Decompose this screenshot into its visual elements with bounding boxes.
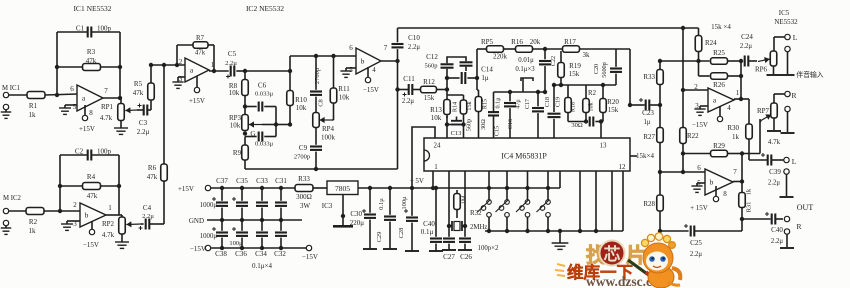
capacitor C8 2700p	[310, 56, 325, 113]
wire G to R10	[276, 124, 290, 126]
svg-text:R16: R16	[511, 38, 523, 46]
wire IC2b pin6	[290, 56, 356, 71]
regulator 7805 IC3	[322, 181, 358, 210]
resistor R14 15k	[447, 95, 473, 138]
node R7 fb	[175, 63, 179, 67]
capacitor C39 2.2u	[749, 153, 784, 187]
capacitor C16 47u	[504, 90, 522, 138]
wire mic2 input	[9, 210, 80, 212]
svg-text:C5: C5	[228, 50, 237, 58]
op-amp IC5b	[697, 164, 737, 198]
svg-text:12: 12	[619, 163, 627, 171]
+15V IC1a	[79, 105, 95, 133]
svg-text:47μ: 47μ	[515, 99, 522, 109]
svg-text:R28: R28	[643, 200, 655, 208]
+5V rail	[358, 171, 560, 188]
svg-text:L: L	[792, 157, 797, 166]
svg-text:R31: R31	[746, 202, 753, 213]
svg-text:−15V: −15V	[363, 86, 379, 94]
+15V IC2a	[189, 76, 205, 105]
wire R20 bottom	[601, 121, 603, 123]
capacitor C28 100u	[398, 186, 419, 251]
wire R29 down	[740, 151, 744, 181]
capacitor C15 0.1u	[488, 92, 502, 138]
capacitor near pin13	[590, 117, 604, 139]
input M IC2	[1, 195, 22, 234]
svg-text:2700p: 2700p	[314, 68, 321, 84]
pot RP1 4.7k	[100, 103, 124, 122]
capacitor C14 1u	[447, 66, 493, 85]
svg-text:47k: 47k	[86, 57, 97, 65]
op-amp IC2b	[349, 44, 388, 74]
svg-text:47k: 47k	[87, 192, 98, 200]
svg-text:10k: 10k	[229, 89, 240, 97]
-15V rail	[190, 245, 305, 253]
capacitor C31/C32	[274, 177, 287, 258]
svg-text:0.1μ: 0.1μ	[378, 198, 385, 210]
resistor R15 30ohm	[475, 78, 488, 138]
svg-text:RP1: RP1	[101, 103, 114, 111]
capacitor C17	[524, 90, 544, 138]
wire cap bank rail	[494, 91, 546, 93]
svg-text:IC1 NE5532: IC1 NE5532	[73, 4, 111, 13]
svg-text:C1: C1	[76, 25, 85, 33]
node R5 top	[149, 63, 153, 67]
capacitor C27 100p	[442, 226, 456, 261]
ground RP2	[115, 234, 129, 248]
svg-text:6: 6	[697, 164, 701, 172]
IC1 label	[73, 4, 111, 13]
svg-text:15k: 15k	[608, 106, 619, 114]
svg-text:R20: R20	[607, 98, 619, 106]
capacitor C6 0.033u	[245, 82, 276, 112]
svg-text:47k: 47k	[147, 173, 158, 181]
node A	[445, 76, 449, 92]
svg-text:6: 6	[70, 85, 74, 93]
svg-text:6: 6	[349, 44, 353, 52]
capacitor C1 100p	[76, 25, 112, 38]
RP7 feed wire	[742, 119, 760, 154]
wire pin24 supply	[412, 127, 435, 188]
wire R26 row	[699, 61, 710, 76]
svg-text:C32: C32	[274, 250, 286, 258]
svg-text:R4: R4	[87, 173, 96, 181]
svg-text:C22: C22	[550, 56, 557, 66]
svg-text:R2: R2	[588, 90, 597, 97]
switch S3	[516, 171, 530, 233]
wire mic1 input	[9, 94, 78, 95]
RP1 wiper arrow	[125, 107, 137, 113]
node C9 return	[314, 167, 318, 171]
ground IC2a pin3	[172, 77, 185, 88]
svg-text:C8: C8	[318, 99, 325, 107]
svg-text:1μ: 1μ	[481, 74, 489, 82]
svg-text:R: R	[796, 222, 801, 231]
wire C6 loop	[275, 107, 277, 137]
wire 30ohm cap row	[568, 119, 588, 129]
label 15kx4 left	[636, 152, 654, 160]
svg-text:RP5: RP5	[481, 38, 494, 46]
svg-text:RP4: RP4	[322, 125, 335, 133]
ground IC1b pin3	[61, 221, 80, 230]
IC4 pin14 stub	[630, 155, 637, 157]
svg-text:C2: C2	[75, 148, 84, 156]
wire C25 row	[658, 229, 689, 233]
resistor R9	[233, 137, 248, 170]
svg-text:OUT: OUT	[797, 203, 814, 212]
node mic2 feedback	[58, 209, 62, 213]
svg-text:C20: C20	[593, 64, 600, 74]
svg-text:4.7k: 4.7k	[102, 231, 115, 239]
label 100u	[229, 240, 243, 247]
svg-text:C29: C29	[376, 232, 383, 243]
wire R3 row	[57, 66, 120, 68]
svg-text:1000μ: 1000μ	[200, 202, 218, 209]
svg-text:47k: 47k	[133, 89, 144, 97]
svg-text:M IC2: M IC2	[3, 195, 22, 202]
svg-text:1k: 1k	[746, 188, 753, 195]
wire IC1a out	[103, 98, 121, 103]
svg-text:47k: 47k	[195, 50, 206, 57]
svg-text:15k×4: 15k×4	[636, 152, 654, 160]
svg-text:R22: R22	[687, 132, 699, 140]
node R3 left	[55, 65, 59, 69]
svg-text:2: 2	[179, 58, 183, 66]
svg-text:NE5532: NE5532	[774, 18, 798, 26]
wire IC1b out	[106, 215, 122, 217]
svg-text:100μ: 100μ	[401, 196, 408, 210]
resistor R1 1k	[27, 92, 45, 120]
resistor R25	[711, 49, 728, 64]
svg-text:C24: C24	[741, 33, 753, 41]
resistor R20 15k	[600, 83, 620, 122]
capacitor C40b 2.2u	[765, 212, 783, 245]
svg-text:IC3: IC3	[322, 202, 333, 210]
wire right bank rail	[554, 84, 616, 86]
node IC2b out join	[395, 59, 399, 63]
svg-text:2.2μ: 2.2μ	[225, 60, 237, 67]
switch bottom wire	[485, 230, 623, 232]
svg-text:8: 8	[89, 109, 93, 117]
svg-text:IC5: IC5	[779, 9, 790, 17]
ground IC5a pin3	[694, 106, 708, 115]
svg-text:10k: 10k	[339, 94, 350, 102]
svg-text:R32: R32	[470, 209, 482, 217]
ground IC1a pin5	[59, 105, 77, 114]
svg-text:7: 7	[384, 44, 388, 52]
svg-text:R3: R3	[87, 48, 96, 56]
svg-text:C27: C27	[443, 253, 455, 261]
svg-text:C31: C31	[275, 177, 287, 185]
resistor R2 1k	[26, 208, 44, 236]
switch S4	[537, 171, 551, 233]
svg-text:4: 4	[727, 104, 731, 112]
svg-text:2: 2	[694, 83, 698, 91]
L out jack	[780, 157, 797, 197]
wire top feedback	[398, 27, 699, 29]
svg-text:0.01μ: 0.01μ	[518, 57, 534, 64]
svg-text:20k: 20k	[530, 38, 541, 46]
svg-text:2.2μ: 2.2μ	[142, 213, 154, 220]
svg-text:10k: 10k	[230, 122, 241, 130]
-15V IC1b	[83, 221, 99, 249]
node C22 top	[543, 47, 547, 51]
svg-text:R2: R2	[29, 218, 38, 226]
svg-text:1k: 1k	[732, 133, 740, 141]
resistor R4 47k	[83, 173, 101, 200]
node R3 right	[118, 65, 122, 69]
op-amp IC1b	[73, 201, 112, 228]
svg-text:0.1μ: 0.1μ	[495, 97, 502, 109]
svg-text:2.2μ: 2.2μ	[740, 43, 752, 50]
svg-text:C40: C40	[423, 220, 435, 228]
capacitor C7 0.033u	[245, 132, 276, 148]
IC4 bottom stubs	[578, 171, 623, 233]
resistor R31 1k	[739, 182, 753, 220]
capacitor C20 5600p	[593, 49, 622, 85]
svg-text:R25: R25	[713, 49, 725, 57]
resistor R18 30ohm	[565, 85, 577, 122]
IC2 label	[246, 4, 284, 13]
svg-text:220μ: 220μ	[350, 219, 365, 227]
svg-text:R19: R19	[569, 62, 581, 70]
svg-text:C36: C36	[235, 250, 247, 258]
svg-text:C12: C12	[426, 53, 438, 61]
svg-text:RP2: RP2	[102, 220, 115, 228]
svg-text:2: 2	[73, 201, 77, 209]
switch S1	[478, 171, 492, 233]
svg-text:24: 24	[434, 142, 442, 150]
svg-text:C15: C15	[494, 126, 501, 136]
svg-text:R11: R11	[338, 85, 350, 93]
wire delay return	[245, 90, 398, 170]
svg-text:8: 8	[723, 190, 727, 198]
resistor R6 47k	[147, 65, 168, 224]
svg-text:7: 7	[104, 87, 108, 95]
capacitor C5 2.2u	[225, 50, 245, 79]
svg-text:15k: 15k	[466, 100, 473, 110]
RP3 wiper arrow	[249, 121, 276, 127]
svg-text:IC4 M65831P: IC4 M65831P	[501, 152, 547, 161]
svg-text:100k: 100k	[321, 134, 336, 142]
wire IC5b pin6	[658, 170, 705, 174]
svg-text:C40: C40	[771, 226, 783, 234]
svg-text:2MHz: 2MHz	[470, 224, 487, 231]
label 15kx4 top	[711, 23, 731, 31]
svg-text:R10: R10	[295, 96, 307, 104]
resistor R12 15k	[421, 78, 437, 102]
svg-text:R33: R33	[643, 73, 655, 81]
capacitor C10 2.2u	[392, 28, 421, 90]
svg-text:2.2μ: 2.2μ	[771, 238, 783, 245]
svg-text:C35: C35	[236, 177, 248, 185]
resistor R27 15k	[643, 105, 663, 172]
+15V IC5b	[690, 186, 719, 212]
svg-text:−15V: −15V	[190, 245, 206, 253]
svg-text:+ 15V: + 15V	[690, 204, 708, 212]
svg-text:R9: R9	[233, 149, 242, 157]
label OUT	[797, 203, 814, 212]
pot RP4 100k	[313, 113, 336, 142]
svg-text:2.2μ: 2.2μ	[768, 180, 780, 187]
resistor R33 300ohm	[295, 175, 327, 210]
R out jack	[780, 216, 802, 248]
switch ground	[552, 229, 569, 250]
svg-text:C19: C19	[555, 97, 562, 107]
resistor R2 10k	[583, 85, 597, 122]
label 1000u bottom	[200, 233, 218, 240]
L input jack	[774, 33, 798, 75]
wire IC2a out	[209, 70, 229, 72]
node R4 left	[58, 184, 62, 188]
wire IC5a pin2	[681, 88, 708, 92]
capacitor C37/C38	[212, 177, 228, 258]
capacitor C22 0.01u	[539, 49, 557, 94]
node R7 out	[212, 69, 216, 73]
svg-text:C9: C9	[299, 144, 308, 152]
capacitor C26 100p	[458, 226, 472, 261]
resistor R5 47k	[133, 65, 155, 110]
svg-text:4: 4	[372, 66, 376, 74]
capacitor C25 2.2u	[684, 224, 742, 258]
capacitor C9 2700p	[294, 128, 322, 170]
node C11 row	[395, 87, 399, 91]
resistor R10 10k	[287, 71, 308, 125]
node R4 right	[117, 184, 121, 188]
pot RP6	[755, 51, 777, 74]
node R10 bottom	[288, 122, 292, 126]
wire RP5 col	[477, 49, 487, 78]
svg-text:R26: R26	[713, 81, 725, 89]
resistor R11 10k	[330, 56, 350, 120]
svg-text:R24: R24	[705, 39, 717, 47]
wire R4 row	[60, 185, 119, 187]
svg-text:5600p: 5600p	[601, 62, 608, 77]
svg-text:0.1μ×4: 0.1μ×4	[252, 262, 272, 270]
switch S2	[496, 171, 510, 233]
svg-text:1: 1	[108, 204, 112, 212]
svg-text:伴音输入: 伴音输入	[796, 70, 823, 79]
svg-text:100p×2: 100p×2	[478, 245, 499, 252]
wire IC2b out	[381, 60, 398, 62]
capacitor C40 0.1u	[421, 186, 443, 251]
wire R16-R17	[533, 48, 563, 50]
capacitor C2 100p	[75, 148, 112, 161]
svg-text:C4: C4	[143, 204, 152, 212]
svg-text:15k: 15k	[424, 94, 435, 102]
label 1000u top	[200, 202, 218, 209]
crystal 2MHz	[447, 171, 488, 231]
svg-text:R14: R14	[452, 102, 459, 112]
wire R7 feedback	[177, 45, 214, 71]
svg-text:2.2μ: 2.2μ	[402, 98, 414, 105]
svg-text:b: b	[710, 178, 714, 187]
svg-text:R17: R17	[564, 38, 576, 46]
svg-text:R27: R27	[643, 133, 655, 141]
wire R12 to node	[437, 89, 448, 91]
svg-text:1k: 1k	[29, 111, 37, 119]
svg-text:0.1μ×3: 0.1μ×3	[515, 66, 535, 73]
capacitor C4 2.2u	[139, 204, 165, 230]
wire C5 node	[245, 70, 290, 72]
svg-text:RP7: RP7	[757, 107, 770, 115]
svg-text:1k: 1k	[29, 227, 37, 235]
label banyin input	[796, 70, 823, 79]
node C8 top	[314, 54, 318, 58]
svg-text:2.2μ: 2.2μ	[137, 128, 150, 136]
svg-text:C37: C37	[216, 177, 228, 185]
svg-text:10k: 10k	[431, 114, 442, 122]
svg-text:R12: R12	[423, 78, 435, 86]
node R6 top	[162, 63, 166, 67]
ground RP6	[767, 66, 781, 75]
svg-text:300Ω: 300Ω	[296, 193, 312, 201]
op-amp IC1a	[70, 85, 108, 117]
svg-text:0.033μ: 0.033μ	[255, 91, 274, 98]
capacitor C12 560p	[425, 53, 473, 78]
node C14 right	[475, 76, 479, 80]
svg-text:芯: 芯	[604, 244, 621, 264]
svg-text:7: 7	[733, 168, 737, 176]
input M IC1	[1, 85, 20, 118]
svg-text:C38: C38	[215, 250, 227, 258]
-15V IC5a	[692, 106, 723, 129]
svg-text:10k: 10k	[296, 104, 307, 112]
resistor R17 3k	[563, 38, 591, 59]
svg-text:+15V: +15V	[79, 125, 95, 133]
resistor R30 1k	[727, 99, 752, 160]
svg-text:M IC1: M IC1	[2, 85, 20, 92]
resistor R24 15k	[695, 28, 717, 61]
svg-text:4.7k: 4.7k	[768, 138, 781, 146]
svg-text:560p: 560p	[466, 119, 473, 131]
pot RP2 4.7k	[102, 217, 125, 239]
svg-text:R6: R6	[148, 164, 157, 172]
svg-text:R29: R29	[713, 142, 725, 150]
wire R25 row	[658, 59, 710, 63]
svg-text:2.2μ: 2.2μ	[690, 251, 702, 258]
svg-text:C6: C6	[258, 82, 267, 90]
svg-text:−15V: −15V	[83, 241, 99, 249]
RP7 wiper arrow	[760, 114, 771, 122]
svg-text:GND: GND	[189, 217, 204, 225]
resistor R26	[711, 73, 728, 89]
wire C1 top loop	[57, 32, 120, 98]
resistor R8 10k	[229, 71, 249, 114]
node C5 out	[243, 69, 247, 73]
label 100px2	[478, 245, 499, 252]
svg-text:30Ω: 30Ω	[571, 122, 583, 129]
svg-text:R33: R33	[298, 175, 310, 183]
capacitor C24 2.2u	[740, 33, 757, 67]
svg-text:C3: C3	[139, 119, 148, 127]
resistor R13 10k	[430, 90, 450, 123]
7805 ground	[333, 195, 353, 228]
svg-text:b: b	[85, 211, 89, 220]
svg-text:13: 13	[600, 142, 608, 150]
svg-text:C34: C34	[255, 250, 267, 258]
node R10 top	[288, 69, 292, 73]
resistor R29	[681, 142, 742, 157]
svg-text:RP6: RP6	[755, 66, 768, 74]
svg-text:30Ω: 30Ω	[480, 119, 487, 130]
node R11 top	[331, 54, 335, 58]
wire C2 top loop	[60, 155, 119, 215]
pot RP5 220k	[481, 38, 508, 61]
wire R26 right	[728, 61, 744, 99]
wire R25-C24	[728, 59, 744, 63]
IC5a out node	[734, 97, 749, 101]
